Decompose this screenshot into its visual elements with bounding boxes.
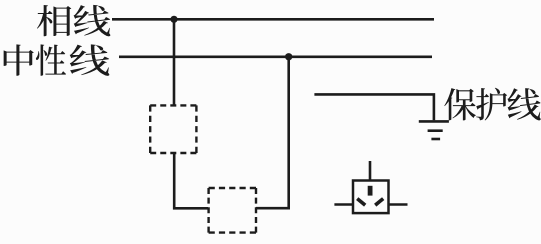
wire from S1 bottom down then right to S2 left side [174,153,208,208]
wire from S2 right side up to neutral-line junction [256,57,289,208]
wire phase line L (horizontal) [112,18,434,21]
wire socket right terminal [389,203,408,206]
socket outlet X1 (3-pin socket symbol) [353,181,389,214]
label text 保护线 (protective earth line) [444,88,540,121]
ground (earth) symbol [419,121,449,139]
wire from phase-line junction down to switch box S1 [173,19,176,106]
wire socket left terminal [334,203,353,206]
switch S2 (dashed box) [209,188,256,233]
wire from socket top pin upward [369,161,372,181]
node junction dot on phase line [170,16,177,23]
node junction dot on neutral line [285,53,292,60]
switch S1 (dashed box) [150,105,196,153]
label text 相线 (phase line) [37,5,110,36]
label text 中性线 (neutral line) [4,44,110,75]
wire neutral line N (horizontal) [119,55,432,58]
wire protective earth line (horizontal then down) [314,94,434,120]
